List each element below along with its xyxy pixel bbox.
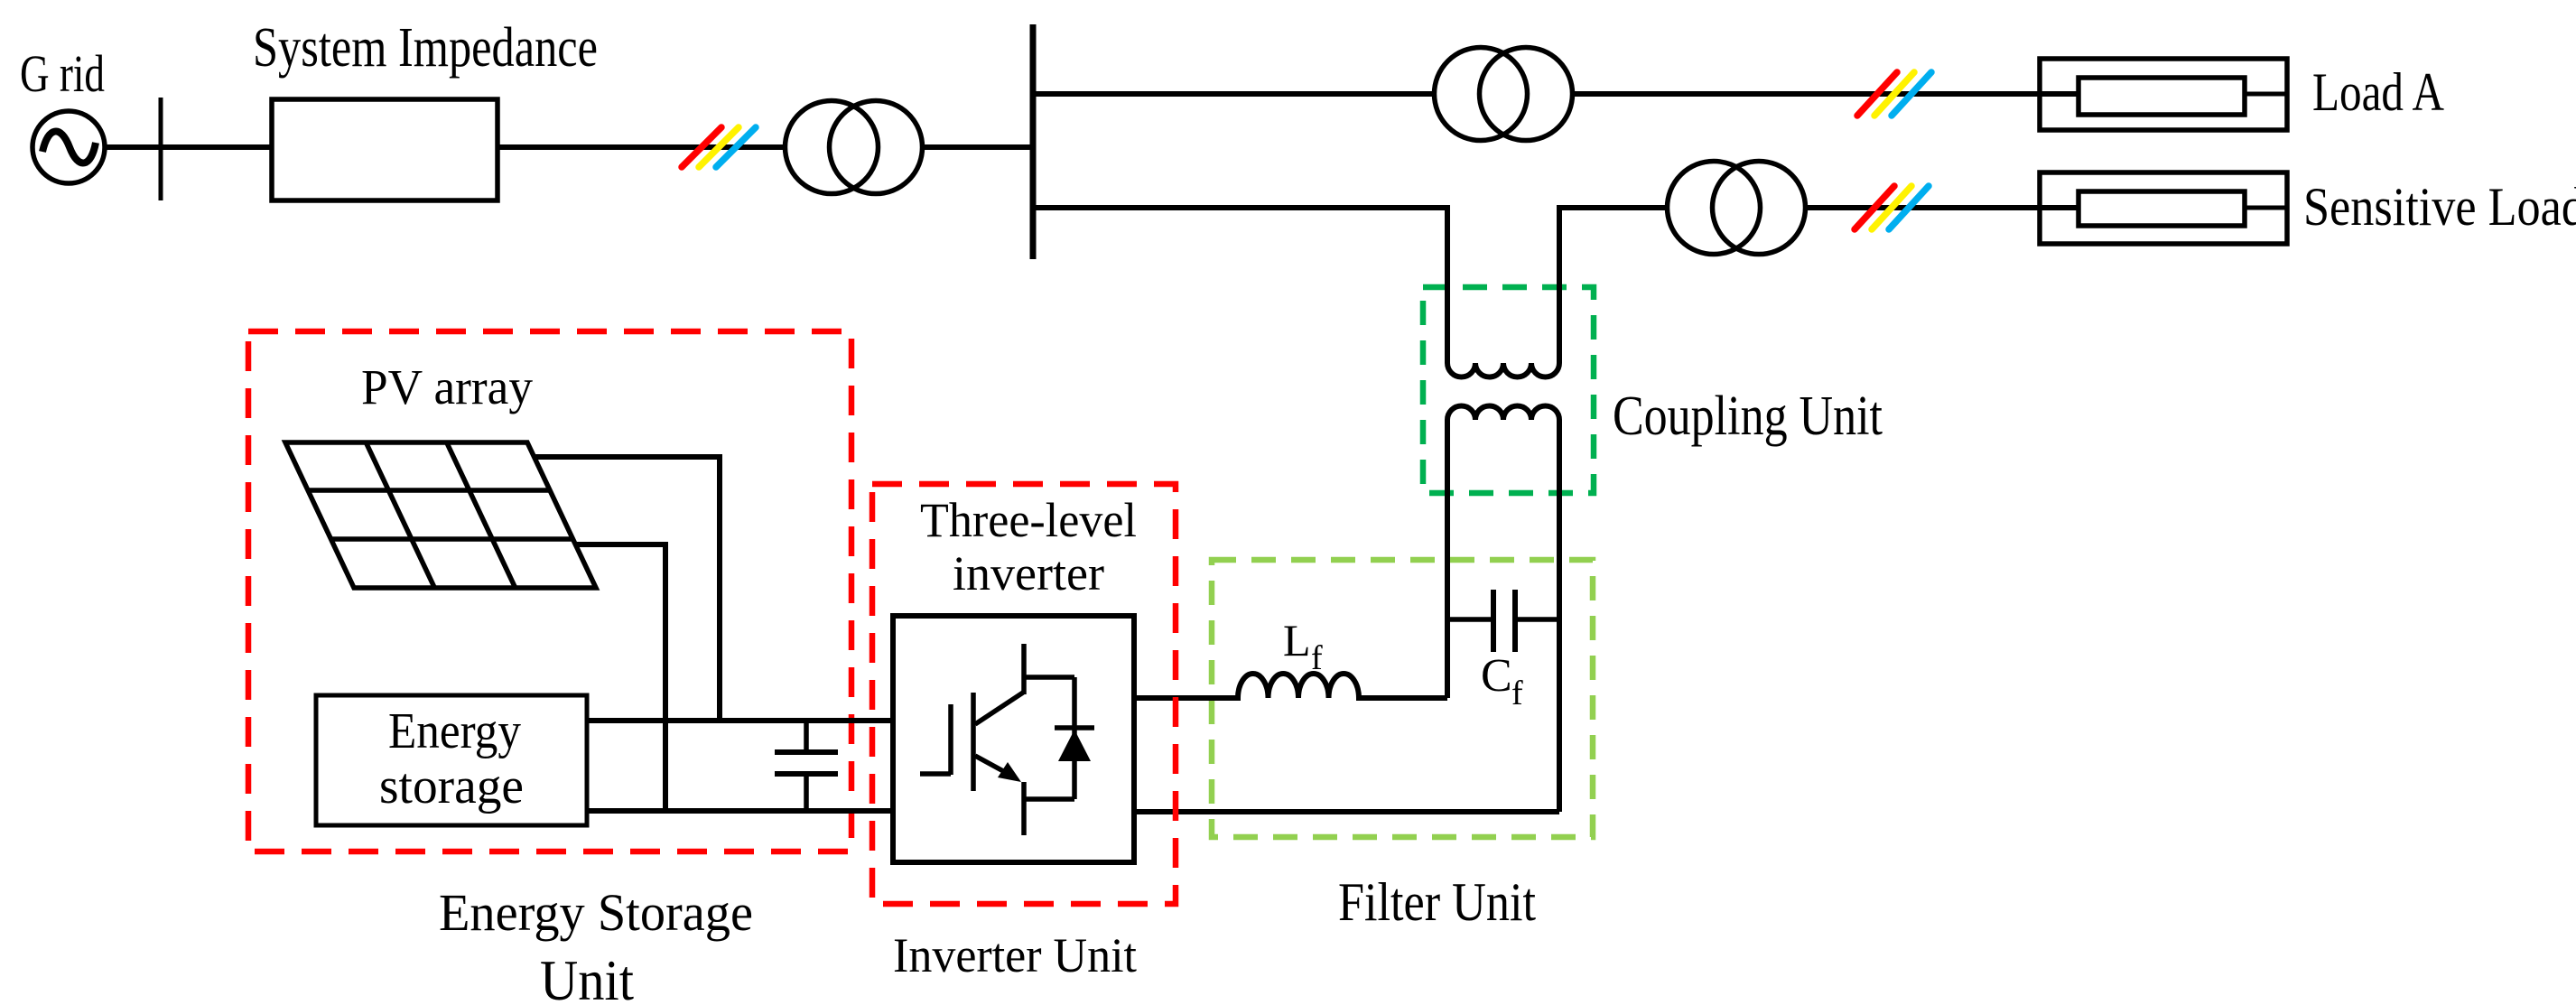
svg-text:G rid: G rid	[20, 44, 105, 103]
wire bus to transformer T2 (Load A feeder)	[1033, 91, 1435, 97]
capacitor Cf plates	[1493, 590, 1515, 652]
svg-text:Energy: Energy	[388, 703, 521, 759]
wire bus to coupling (sensitive feeder left segment)	[1033, 205, 1447, 210]
three-phase slash marker M1 yellow	[699, 127, 739, 167]
svg-text:Inverter Unit: Inverter Unit	[893, 928, 1137, 982]
Sensitive Load right stub wire	[2245, 206, 2287, 210]
capacitor Cf left wire	[1447, 617, 1493, 622]
svg-text:Unit: Unit	[540, 949, 634, 1005]
three-phase slash marker M2 red	[1857, 72, 1897, 116]
transformer T1	[786, 101, 923, 194]
svg-text:System Impedance: System Impedance	[253, 17, 598, 79]
Load A inner bar	[2078, 78, 2245, 115]
IGBT Q1 emitter arrowhead	[998, 762, 1021, 782]
inverter unit dashed box	[872, 484, 1176, 904]
coupling unit dashed box	[1423, 287, 1594, 493]
PV array panel row lines	[308, 490, 572, 539]
DC bus top wire	[587, 718, 893, 723]
svg-text:PV array: PV array	[361, 359, 533, 414]
IGBT Q1 channel bar	[971, 693, 976, 791]
transformer T2	[1435, 48, 1573, 141]
DC bus bottom wire	[587, 808, 893, 814]
svg-text:Load A: Load A	[2312, 62, 2444, 122]
diode D1 triangle	[1058, 730, 1091, 761]
diode D1 vertical lead	[1072, 677, 1077, 799]
svg-text:storage: storage	[379, 758, 524, 814]
svg-text:f: f	[1311, 639, 1323, 677]
resistor System Impedance	[272, 99, 498, 200]
three-phase slash marker M3 yellow	[1872, 186, 1911, 229]
PV wire 2 (bottom output)	[574, 544, 665, 811]
Load A outer box	[2040, 59, 2287, 130]
Sensitive Load outer box	[2040, 172, 2287, 244]
PV array panel outline	[285, 442, 596, 588]
DC link capacitor top stub	[804, 721, 809, 752]
wire T3 to Sensitive Load box	[1806, 205, 2078, 210]
IGBT Q1 emitter lead	[1021, 782, 1027, 835]
IGBT Q1 collector diagonal	[975, 693, 1023, 724]
Sensitive Load inner bar	[2078, 191, 2245, 226]
bus tick	[159, 98, 163, 200]
three-phase slash marker M3 red	[1855, 186, 1894, 229]
DC link capacitor plates	[775, 752, 838, 774]
svg-text:Energy Storage: Energy Storage	[439, 883, 753, 942]
svg-text:Sensitive Load: Sensitive Load	[2303, 177, 2576, 237]
IGBT Q1 top link to diode	[1024, 675, 1074, 680]
wire impedance to transformer T1	[498, 144, 786, 150]
PV array panel column lines	[366, 442, 515, 588]
coupling transformer secondary winding (bottom)	[1447, 406, 1559, 813]
svg-text:L: L	[1283, 615, 1311, 665]
IGBT Q1 bottom link to diode	[1024, 796, 1074, 802]
sine wave inside source	[42, 131, 96, 163]
IGBT Q1 gate bar	[948, 704, 953, 775]
capacitor Cf right wire	[1515, 617, 1559, 622]
svg-text:inverter: inverter	[953, 546, 1104, 600]
three-phase slash marker M1 blue	[716, 127, 756, 167]
wire coupling to transformer T3	[1559, 205, 1667, 210]
transformer T3	[1668, 162, 1806, 255]
svg-text:C: C	[1481, 650, 1512, 702]
inverter box U1	[893, 616, 1134, 862]
IGBT Q1 gate lead	[920, 771, 951, 777]
DC link capacitor bottom stub	[804, 774, 809, 811]
three-phase slash marker M2 blue	[1892, 72, 1931, 116]
wire inverter bottom output to filter right vertical	[1134, 809, 1559, 814]
svg-text:f: f	[1511, 675, 1523, 712]
svg-text:Coupling Unit: Coupling Unit	[1613, 386, 1883, 447]
Energy storage box	[316, 695, 587, 825]
svg-text:Filter Unit: Filter Unit	[1338, 872, 1536, 932]
energy storage unit dashed box	[248, 331, 851, 851]
filter unit dashed box	[1212, 560, 1593, 837]
diode D1 cathode bar	[1055, 725, 1094, 730]
three-phase slash marker M3 blue	[1889, 186, 1929, 229]
wire source to impedance	[105, 144, 272, 150]
coupling transformer primary winding (top)	[1447, 205, 1559, 377]
wire T1 to bus	[923, 144, 1033, 150]
AC source circle (Grid)	[33, 111, 105, 183]
PV wire 1 (top output)	[533, 457, 720, 721]
IGBT Q1 emitter diagonal	[975, 756, 1005, 772]
three-phase slash marker M2 yellow	[1874, 72, 1914, 116]
bus bar	[1030, 24, 1037, 259]
svg-text:Three-level: Three-level	[920, 493, 1137, 547]
IGBT Q1 collector lead	[1021, 644, 1027, 694]
Load A right stub wire	[2245, 92, 2287, 97]
wire T2 to Load A box	[1572, 91, 2078, 97]
three-phase slash marker M1 red	[682, 127, 721, 167]
inductor Lf with wires	[1134, 674, 1447, 698]
